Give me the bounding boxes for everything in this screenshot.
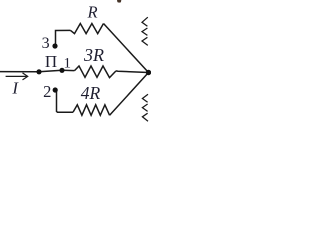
partial resistor (cut off at right edge, bottom) chevron 2 xyxy=(142,104,147,111)
svg-text:2: 2 xyxy=(43,82,51,101)
svg-text:П: П xyxy=(45,52,57,71)
node: contact 2 dot xyxy=(53,87,58,92)
partial resistor (cut off at right edge, top) chevron 3 xyxy=(142,37,148,45)
node: contact 1 dot xyxy=(59,68,64,73)
partial resistor (cut off at right edge, bottom) chevron 3 xyxy=(142,113,148,121)
svg-text:R: R xyxy=(86,3,97,22)
wire: node 2 vertical down and across to resistor 4R xyxy=(56,90,74,112)
stray mark at top edge xyxy=(117,0,121,3)
node: switch pole junction dot xyxy=(36,69,41,74)
partial resistor (cut off at right edge, top) chevron 1 xyxy=(142,17,148,26)
svg-text:3R: 3R xyxy=(83,45,104,65)
wire: resistor 3R to right node xyxy=(116,71,149,73)
wire: diagonal from resistor R down to right node xyxy=(104,24,149,73)
wire: main input wire from left edge to switch pole xyxy=(0,71,39,73)
resistor 4R xyxy=(73,105,110,116)
svg-text:3: 3 xyxy=(42,35,50,52)
node: right junction dot xyxy=(146,70,151,75)
partial resistor (cut off at right edge, top) chevron 2 xyxy=(142,28,147,35)
wire: node 3 vertical up and across to resistor R xyxy=(55,30,71,46)
current arrow I xyxy=(6,73,28,80)
node: contact 3 dot xyxy=(52,43,57,48)
wire: switch blade from pole to contact 1 xyxy=(39,70,62,72)
svg-text:I: I xyxy=(11,79,19,98)
resistor R xyxy=(71,24,104,34)
svg-text:4R: 4R xyxy=(81,83,101,103)
partial resistor (cut off at right edge, bottom) chevron 1 xyxy=(142,94,148,102)
wire: contact 1 to resistor 3R xyxy=(62,69,75,71)
wire: diagonal from resistor 4R up to right node xyxy=(110,73,149,116)
svg-text:1: 1 xyxy=(64,55,72,71)
resistor 3R xyxy=(75,66,117,78)
